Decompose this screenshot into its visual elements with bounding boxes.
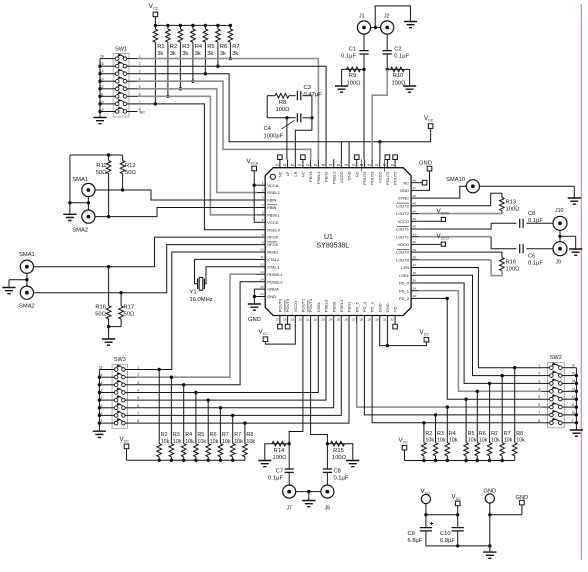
svg-text:13: 13	[260, 270, 264, 274]
svg-text:7: 7	[137, 411, 139, 415]
resistor R7 3k	[229, 25, 231, 29]
U1 top pins 64-49	[279, 159, 281, 167]
svg-text:CCO: CCO	[441, 236, 449, 240]
ground (R16/R17)	[102, 339, 115, 345]
ground (SW1)	[99, 115, 101, 117]
svg-text:R8: R8	[516, 431, 523, 437]
svg-text:12: 12	[572, 395, 576, 399]
svg-text:10k: 10k	[197, 439, 206, 445]
IC U1 SY89538L body	[265, 168, 411, 316]
wire SW3 row4 to U1 pin22 DSEL	[136, 324, 318, 393]
svg-text:R7: R7	[504, 431, 511, 437]
svg-text:GND: GND	[419, 161, 432, 167]
svg-text:23: 23	[321, 317, 325, 321]
svg-text:PD_5: PD_5	[354, 301, 359, 312]
connector J9	[553, 242, 567, 256]
svg-text:R14: R14	[274, 448, 285, 454]
svg-text:SMA2: SMA2	[19, 304, 35, 310]
svg-text:31: 31	[383, 317, 387, 321]
resistor R6 10k (left bank)	[207, 400, 209, 444]
svg-text:INSEL: INSEL	[267, 250, 279, 255]
svg-text:56: 56	[337, 163, 341, 167]
wire SW3 row2 to U1 pin13 PDSEL1	[136, 274, 257, 377]
svg-text:15: 15	[260, 285, 264, 289]
svg-text:C7: C7	[276, 469, 283, 475]
wire U1 pin46 SYNC to SMA10	[419, 186, 466, 198]
svg-text:50Ω: 50Ω	[95, 312, 106, 318]
wire U1 pin35 PD_0 to SW2 row3	[419, 283, 541, 383]
junction dots on VCC rail	[154, 24, 157, 27]
svg-text:1000pF: 1000pF	[264, 134, 284, 140]
switch SW2	[547, 362, 564, 428]
svg-text:PDSEL1: PDSEL1	[267, 272, 283, 277]
wire SMA shield to ground (upper)	[87, 197, 89, 210]
wire GND terminal to U1 pin47	[419, 171, 429, 191]
svg-text:POUT2: POUT2	[393, 171, 398, 185]
resistor R8 10k (left bank)	[244, 423, 246, 444]
svg-text:7: 7	[538, 411, 540, 415]
svg-text:3: 3	[139, 70, 141, 74]
wire U1 pin20 POUT1 to C7/J7	[289, 324, 303, 444]
svg-text:10k: 10k	[449, 438, 458, 444]
resistor R5 3k	[204, 25, 206, 29]
svg-text:3k: 3k	[232, 51, 238, 57]
wire U1 pin36 LSEL to SW2 row2	[419, 275, 541, 375]
svg-text:3k: 3k	[195, 51, 201, 57]
svg-text:R17: R17	[124, 305, 135, 311]
svg-text:50Ω: 50Ω	[124, 312, 135, 318]
svg-text:SY89538L: SY89538L	[317, 243, 350, 250]
wire SMA2 to U1 pin4	[95, 208, 257, 217]
svg-text:4: 4	[137, 389, 139, 393]
svg-text:3k: 3k	[182, 51, 188, 57]
svg-text:16: 16	[572, 364, 576, 368]
svg-text:7: 7	[139, 100, 141, 104]
svg-text:60: 60	[306, 163, 310, 167]
svg-text:SW3: SW3	[114, 357, 126, 363]
U1 left pins 1-16	[257, 184, 265, 186]
svg-text:9: 9	[572, 419, 574, 423]
svg-text:PSEL1: PSEL1	[339, 299, 344, 312]
wire SW1 row4 to U1 pin60 PEN3	[138, 81, 311, 159]
svg-text:46: 46	[413, 194, 417, 198]
svg-text:16: 16	[99, 366, 103, 370]
switch SW3	[112, 364, 127, 428]
svg-text:PDSEL0: PDSEL0	[267, 279, 283, 284]
svg-text:40: 40	[413, 240, 417, 244]
resistor R17 50ohm	[120, 293, 122, 306]
capacitor C7 0.1uF	[288, 444, 290, 469]
svg-text:PD_0: PD_0	[399, 281, 410, 286]
wire SW3 row5 to U1 pin23 PSEL0	[136, 324, 326, 400]
svg-text:3: 3	[538, 379, 540, 383]
resistor R6 10k (right bank)	[476, 391, 478, 442]
svg-text:10k: 10k	[437, 438, 446, 444]
wire SW1 row2 to U1 pin58	[138, 66, 327, 159]
svg-text:44: 44	[413, 209, 417, 213]
svg-text:C2: C2	[394, 47, 401, 53]
svg-text:NC: NC	[403, 180, 409, 185]
svg-text:CC: CC	[428, 118, 434, 122]
svg-text:10k: 10k	[468, 438, 477, 444]
svg-text:PSEL0: PSEL0	[324, 299, 329, 312]
wire U1 pin28 PD_4 to SW2 row7	[364, 324, 541, 415]
svg-text:0.1µF: 0.1µF	[268, 476, 283, 482]
wire SW1 row5 to U1 pin2 RSEL1	[138, 89, 258, 193]
wire SW3 row6 to U1 pin24 PEN0	[136, 324, 334, 408]
svg-text:14: 14	[260, 277, 264, 281]
svg-text:GND: GND	[267, 294, 276, 299]
svg-text:38: 38	[413, 256, 417, 260]
resistor R10 100ohm	[386, 68, 389, 71]
svg-text:CC: CC	[456, 497, 462, 501]
wire GND terminals join	[489, 503, 491, 546]
capacitor C6 0.1uF	[520, 244, 523, 253]
svg-text:R3: R3	[182, 44, 189, 50]
wire SW1 row6 to U1 pin5 FBSEL	[138, 96, 258, 215]
capacitor C9 6.8uF	[425, 515, 427, 528]
wire VCCA to U1 pin1/pin6	[253, 171, 255, 223]
resistor R12 50ohm	[122, 155, 124, 161]
svg-text:R7: R7	[222, 432, 229, 438]
wire U1 pin21 to C8/J6	[311, 324, 328, 444]
wire SMA2 to U1 pin9	[34, 245, 258, 293]
svg-text:PD_1: PD_1	[399, 288, 410, 293]
resistor R16 50ohm	[108, 267, 110, 306]
svg-text:J7: J7	[286, 506, 292, 512]
svg-text:XTAL1: XTAL1	[267, 264, 280, 269]
svg-text:CC: CC	[153, 6, 159, 10]
capacitor C1 0.1uF	[363, 34, 365, 51]
wire VCC rail to U1 pin56 VCCO	[340, 142, 342, 160]
svg-text:C4: C4	[264, 126, 272, 132]
svg-text:POUT3: POUT3	[370, 171, 375, 185]
wire loop filter left/right edges	[266, 96, 268, 118]
svg-text:SMA10: SMA10	[446, 177, 465, 183]
svg-text:LOUT1: LOUT1	[396, 234, 410, 239]
svg-text:R6: R6	[210, 432, 217, 438]
svg-text:R7: R7	[234, 432, 241, 438]
svg-text:CC: CC	[124, 439, 130, 443]
svg-text:RFCK: RFCK	[267, 242, 278, 247]
svg-text:9: 9	[102, 108, 104, 112]
wire SW2 common rail to ground	[575, 368, 577, 430]
svg-text:10k: 10k	[516, 438, 525, 444]
wire J10/J9 shields to ground	[559, 230, 561, 241]
svg-text:SW1: SW1	[115, 47, 127, 53]
svg-text:R3: R3	[437, 431, 444, 437]
svg-text:16.0MHz: 16.0MHz	[190, 297, 213, 303]
svg-text:28: 28	[360, 317, 364, 321]
wire U1 pin29 PD_3 to SW2 row8	[372, 324, 541, 423]
svg-text:24: 24	[329, 317, 333, 321]
junction dots R1-R7 to SW1 rows	[154, 102, 157, 105]
svg-text:FBIN: FBIN	[267, 198, 276, 203]
wire U1 pin27 PD_5 to SW2 row6	[357, 324, 542, 407]
svg-text:0.1µF: 0.1µF	[334, 476, 349, 482]
resistor R3 3k	[179, 25, 181, 29]
svg-text:10k: 10k	[161, 439, 170, 445]
svg-text:27: 27	[352, 317, 356, 321]
wire VCC rail to U1 pin55	[348, 142, 350, 160]
crystal Y1 16.0MHz	[197, 279, 199, 289]
svg-text:PEN1: PEN1	[347, 301, 352, 312]
svg-text:41: 41	[413, 232, 417, 236]
svg-text:R4: R4	[449, 431, 456, 437]
resistor R8 10k (right bank)	[514, 368, 516, 443]
svg-text:100Ω: 100Ω	[272, 455, 287, 461]
wire VCC rail to U1 pin51 VCCO	[378, 140, 381, 143]
wire SW3 row8 to U1 pin26 PEN1	[136, 324, 349, 423]
svg-text:11: 11	[260, 255, 263, 259]
U1 bottom pins 17-32	[279, 316, 281, 324]
connector SMA2 (upper)	[82, 210, 95, 223]
resistor R13 100ohm	[419, 193, 502, 206]
svg-text:21: 21	[306, 317, 310, 321]
wire U1 pin44 LOUT2 to R13	[419, 213, 502, 215]
wire SW1 row7 to U1 pin7 RSEL0	[138, 104, 258, 230]
svg-text:GNDA: GNDA	[267, 287, 279, 292]
wire J1 chain to U1 pin53	[363, 69, 365, 159]
resistor R1 3k	[154, 25, 156, 29]
svg-text:LR: LR	[293, 171, 298, 176]
wire U1 pin42 to C8/J10	[419, 223, 516, 229]
resistor R7 10k (left bank)	[219, 408, 221, 444]
svg-text:10: 10	[260, 248, 264, 252]
wire SW1 common rail to ground	[99, 59, 101, 116]
svg-text:PSEL3: PSEL3	[316, 171, 321, 184]
svg-text:PEN2: PEN2	[324, 171, 329, 182]
svg-text:SMA2: SMA2	[72, 228, 88, 234]
svg-text:VCCD: VCCD	[267, 220, 278, 225]
capacitor C8 0.1uF (bottom)	[326, 444, 328, 469]
resistor R14 100ohm	[288, 442, 291, 445]
ground (R14)	[258, 461, 271, 467]
svg-text:R9: R9	[349, 73, 356, 79]
svg-text:R2: R2	[170, 44, 177, 50]
svg-text:64: 64	[275, 163, 279, 167]
ground (SMA10)	[568, 198, 581, 204]
capacitor C3 0.47uF	[293, 95, 296, 97]
wire SMA1 to U1 pin3 FBIN	[95, 190, 257, 200]
svg-text:R6: R6	[220, 44, 227, 50]
svg-text:100Ω: 100Ω	[506, 267, 521, 273]
svg-text:10k: 10k	[425, 438, 434, 444]
svg-text:LOUT0: LOUT0	[396, 250, 410, 255]
svg-text:POUT0: POUT0	[278, 298, 283, 312]
wire loop filter to U1 pin62 LR	[310, 116, 313, 119]
svg-text:R8: R8	[279, 100, 286, 106]
svg-text:C9: C9	[408, 531, 415, 537]
svg-text:14: 14	[572, 379, 576, 383]
resistor R8 100ohm	[267, 95, 275, 97]
svg-text:J9: J9	[556, 260, 562, 266]
svg-text:POUT1: POUT1	[308, 298, 313, 312]
svg-text:FBSEL: FBSEL	[267, 213, 280, 218]
svg-text:R16: R16	[506, 260, 517, 266]
svg-text:100Ω: 100Ω	[506, 207, 521, 213]
svg-text:43: 43	[413, 217, 417, 221]
svg-text:26: 26	[344, 317, 348, 321]
resistor R6 3k	[217, 25, 219, 29]
svg-text:57: 57	[329, 163, 333, 167]
svg-text:3k: 3k	[207, 51, 213, 57]
capacitor C4 1000pF	[267, 117, 296, 119]
ground (R10)	[403, 86, 416, 92]
svg-text:39: 39	[413, 248, 417, 252]
svg-text:10k: 10k	[234, 439, 243, 445]
svg-text:0.1µF: 0.1µF	[528, 260, 543, 266]
svg-text:0.1µF: 0.1µF	[394, 54, 409, 60]
svg-text:PEN0: PEN0	[331, 301, 336, 312]
svg-text:C8: C8	[334, 469, 341, 475]
svg-text:100Ω: 100Ω	[332, 455, 347, 461]
svg-text:CCO: CCO	[441, 211, 449, 215]
svg-text:R10: R10	[393, 73, 404, 79]
svg-text:36: 36	[413, 271, 417, 275]
svg-text:LF: LF	[285, 171, 290, 176]
svg-text:0.1µF: 0.1µF	[341, 54, 356, 60]
svg-text:3k: 3k	[157, 51, 163, 57]
svg-text:3k: 3k	[170, 51, 176, 57]
resistor R3 10k (left bank)	[170, 377, 172, 443]
svg-text:GND: GND	[400, 188, 409, 193]
resistor R3 10k (right bank)	[435, 415, 437, 443]
svg-text:C6: C6	[528, 254, 535, 260]
svg-text:54: 54	[352, 163, 356, 167]
ground (J7/J6)	[302, 501, 315, 507]
svg-text:37: 37	[413, 263, 417, 267]
svg-text:DSEL: DSEL	[316, 301, 321, 312]
svg-text:100Ω: 100Ω	[346, 81, 361, 87]
wire SW3 row1 to U1 pin10 INSEL	[136, 252, 257, 370]
svg-text:22: 22	[314, 317, 318, 321]
svg-text:C10: C10	[440, 531, 451, 537]
svg-text:16: 16	[260, 292, 264, 296]
svg-text:48: 48	[413, 178, 417, 182]
svg-text:50Ω: 50Ω	[96, 170, 107, 176]
svg-text:8: 8	[137, 419, 139, 423]
svg-text:PSEL2: PSEL2	[331, 171, 336, 184]
svg-text:FBIN: FBIN	[267, 205, 276, 210]
svg-text:POUT3: POUT3	[362, 171, 367, 185]
connector J6	[321, 485, 334, 498]
svg-text:34: 34	[413, 286, 417, 290]
resistor R5 10k (left bank)	[195, 393, 197, 444]
svg-text:52: 52	[368, 163, 372, 167]
wire SW1 row1 to U1 pin59	[138, 59, 319, 160]
svg-text:47: 47	[413, 186, 417, 190]
svg-text:49: 49	[391, 163, 395, 167]
wire R16/R17 join to ground	[109, 326, 122, 328]
page edge line	[580, 4, 582, 560]
svg-text:J2: J2	[384, 14, 390, 20]
svg-text:16: 16	[100, 55, 104, 59]
svg-text:42: 42	[413, 225, 417, 229]
ground (bottom)	[483, 552, 496, 558]
wire U1 pin33 PD_2 to SW2 row5	[446, 297, 449, 300]
svg-text:15: 15	[572, 372, 576, 376]
svg-text:51: 51	[375, 163, 379, 167]
svg-text:XTAL2: XTAL2	[267, 257, 280, 262]
resistor R7 10k (right bank)	[501, 376, 503, 443]
svg-text:NC: NC	[278, 171, 283, 177]
svg-text:VCCA: VCCA	[267, 183, 278, 188]
resistor R2 10k (left bank)	[158, 370, 160, 444]
svg-text:C3: C3	[304, 85, 311, 91]
svg-text:LOUT2: LOUT2	[396, 211, 410, 216]
wire termination rail (upper SMA)	[70, 154, 123, 156]
svg-text:POUT0: POUT0	[285, 298, 290, 312]
wire VCO/VCC join	[425, 504, 427, 515]
resistor R7 10k (left bank)	[232, 415, 234, 443]
svg-text:17: 17	[275, 317, 279, 321]
svg-text:J6: J6	[325, 506, 331, 512]
svg-text:R5: R5	[197, 432, 204, 438]
wire loop filter to U1 pin63 LF	[285, 116, 288, 119]
svg-text:50Ω: 50Ω	[125, 170, 136, 176]
svg-text:61: 61	[298, 163, 302, 167]
wire SW3 common rail to ground	[98, 370, 100, 431]
svg-text:1: 1	[137, 366, 139, 370]
svg-text:R5: R5	[468, 431, 475, 437]
resistor R4 3k	[192, 25, 194, 29]
wire U1 pin11 XTAL2 to Y1	[195, 259, 258, 283]
svg-text:NC: NC	[140, 110, 146, 115]
svg-text:10k: 10k	[210, 439, 219, 445]
svg-text:10k: 10k	[222, 439, 231, 445]
connector SMA2 (lower)	[20, 286, 33, 299]
wire SMA shield to ground (lower)	[26, 273, 28, 286]
wire VCC terminal to U1 pin19 VCCO	[265, 324, 295, 344]
wire VCC rail (right bank)	[405, 460, 515, 462]
svg-text:58: 58	[321, 163, 325, 167]
ground (U1 GNDA/GND)	[248, 304, 261, 310]
svg-text:10k: 10k	[185, 439, 194, 445]
ground (J10/J9)	[569, 249, 582, 255]
svg-text:10k: 10k	[504, 438, 513, 444]
svg-text:0.1µF: 0.1µF	[528, 218, 543, 224]
wire U1 pins30/31 to VCC terminal	[380, 324, 427, 346]
svg-text:10: 10	[572, 411, 576, 415]
svg-text:GND: GND	[347, 171, 352, 180]
resistor R5 10k (right bank)	[465, 399, 467, 442]
svg-text:R7: R7	[491, 431, 498, 437]
svg-text:C1: C1	[349, 47, 356, 53]
svg-text:GND: GND	[385, 303, 390, 312]
svg-text:R5: R5	[207, 44, 214, 50]
svg-text:R4: R4	[195, 44, 203, 50]
resistor R4 10k (right bank)	[446, 407, 448, 443]
svg-text:PD_3: PD_3	[370, 301, 375, 312]
svg-text:6.8µF: 6.8µF	[408, 538, 423, 544]
svg-text:33: 33	[413, 294, 417, 298]
svg-text:3k: 3k	[220, 51, 226, 57]
wire VCC rail top-left	[155, 24, 230, 26]
wire U1 pin34 PD_1 to SW2 row4	[419, 291, 541, 392]
U1 right pins 48-33	[411, 182, 419, 184]
ground (lower SMA)	[2, 288, 15, 294]
svg-text:NC: NC	[393, 306, 398, 312]
svg-text:59: 59	[314, 163, 318, 167]
svg-text:CC: CC	[424, 332, 430, 336]
svg-text:J1: J1	[359, 14, 365, 20]
svg-text:5: 5	[137, 396, 139, 400]
svg-text:R13: R13	[506, 200, 517, 206]
svg-text:NC: NC	[354, 171, 359, 177]
svg-text:POUT2: POUT2	[385, 171, 390, 185]
resistor R9 100ohm	[362, 68, 365, 71]
